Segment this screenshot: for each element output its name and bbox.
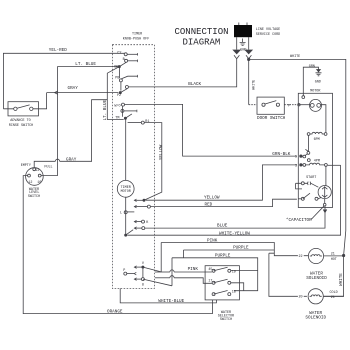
svg-text:18: 18	[232, 290, 236, 294]
svg-text:YELLOW: YELLOW	[204, 195, 220, 200]
svg-text:MOTOR: MOTOR	[121, 190, 131, 194]
svg-text:RED: RED	[205, 202, 213, 207]
svg-text:WHITE: WHITE	[339, 273, 344, 286]
svg-text:START: START	[306, 176, 316, 180]
svg-text:DIAGRAM: DIAGRAM	[183, 38, 221, 48]
svg-text:R1: R1	[145, 120, 149, 124]
svg-text:WHITE-BLUE: WHITE-BLUE	[158, 299, 184, 304]
svg-text:3: 3	[295, 165, 297, 169]
svg-text:P2: P2	[117, 94, 121, 98]
svg-text:21: 21	[331, 253, 335, 257]
svg-text:45: 45	[208, 268, 212, 272]
svg-text:PB: PB	[115, 76, 119, 80]
svg-text:KNOB-PUSH OFF: KNOB-PUSH OFF	[123, 38, 149, 42]
svg-text:PURPLE: PURPLE	[233, 245, 249, 250]
svg-text:GND: GND	[315, 81, 321, 85]
svg-text:12: 12	[35, 169, 39, 173]
svg-text:TM: TM	[115, 117, 119, 121]
svg-text:YEL-RED: YEL-RED	[49, 48, 67, 53]
svg-text:RINSE SWITCH: RINSE SWITCH	[9, 124, 33, 128]
svg-text:W/O: W/O	[114, 104, 120, 109]
svg-text:ORANGE: ORANGE	[107, 309, 123, 314]
svg-text:BLACK: BLACK	[188, 82, 201, 87]
svg-text:FULL: FULL	[44, 165, 52, 169]
svg-text:DOOR SWITCH: DOOR SWITCH	[257, 116, 286, 121]
svg-text:SWITCH: SWITCH	[220, 318, 232, 322]
svg-text:PURPLE: PURPLE	[215, 253, 231, 258]
svg-text:8: 8	[142, 283, 144, 287]
svg-text:6PM: 6PM	[314, 138, 320, 142]
svg-text:5: 5	[295, 156, 297, 160]
svg-text:GND: GND	[240, 49, 246, 53]
svg-text:12: 12	[28, 181, 32, 185]
svg-text:TIMER: TIMER	[132, 32, 142, 36]
svg-text:L: L	[120, 212, 122, 216]
svg-text:EMPTY: EMPTY	[21, 164, 31, 168]
svg-text:GRAY: GRAY	[68, 86, 79, 91]
svg-text:CONNECTION: CONNECTION	[175, 27, 229, 37]
svg-text:17: 17	[208, 280, 212, 284]
svg-text:P: P	[288, 104, 290, 108]
svg-text:SWITCH: SWITCH	[28, 195, 40, 199]
svg-text:YELLOW: YELLOW	[159, 144, 164, 160]
svg-text:GRN: GRN	[309, 65, 315, 69]
svg-text:SOLENOID: SOLENOID	[306, 276, 327, 281]
svg-text:COLD: COLD	[330, 291, 338, 295]
svg-text:21: 21	[331, 296, 335, 300]
svg-text:GRN-BLK: GRN-BLK	[272, 152, 290, 157]
svg-text:B: B	[123, 58, 125, 62]
svg-text:HOT: HOT	[331, 258, 337, 262]
svg-text:WHITE-YELLOW: WHITE-YELLOW	[219, 232, 250, 237]
svg-text:16: 16	[37, 181, 41, 185]
svg-text:P: P	[123, 269, 125, 273]
svg-text:*CAPACITOR: *CAPACITOR	[286, 218, 312, 223]
svg-text:WHITE: WHITE	[252, 80, 256, 90]
svg-text:PINK: PINK	[188, 267, 199, 272]
svg-text:CY: CY	[117, 52, 121, 56]
svg-text:MOTOR: MOTOR	[310, 90, 320, 94]
svg-text:19: 19	[232, 270, 236, 274]
svg-text:ADVANCE TO: ADVANCE TO	[10, 119, 30, 123]
svg-text:BLUE: BLUE	[217, 223, 228, 228]
svg-text:4PM: 4PM	[314, 159, 320, 163]
svg-text:GRAY: GRAY	[66, 157, 77, 162]
svg-text:LT. BLUE: LT. BLUE	[75, 62, 96, 67]
svg-text:22: 22	[299, 255, 303, 259]
svg-text:WHITE: WHITE	[290, 55, 300, 59]
svg-text:20: 20	[299, 296, 303, 300]
svg-text:LINE VOLTAGE: LINE VOLTAGE	[256, 28, 280, 32]
svg-text:PINK: PINK	[207, 239, 218, 244]
svg-text:SERVICE CORD: SERVICE CORD	[256, 33, 280, 37]
svg-text:SOLENOID: SOLENOID	[305, 315, 326, 320]
svg-text:LT. BLUE: LT. BLUE	[103, 99, 108, 120]
